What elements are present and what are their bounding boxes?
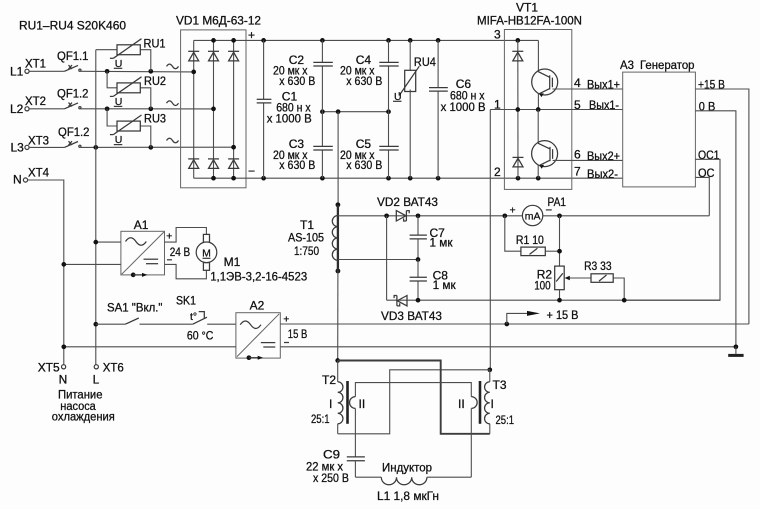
IGBT 1 [532, 40, 558, 109]
junction C6 bottom [436, 176, 441, 181]
capacitor C3 [273, 112, 333, 179]
node L1-RU2 [105, 69, 110, 74]
node L1-RU1 [148, 69, 153, 74]
svg-text:х 1000 В: х 1000 В [441, 100, 486, 114]
svg-text:L2: L2 [10, 102, 24, 116]
wire R2 top lead [559, 216, 561, 266]
wire gate1 to pin 4 [552, 88, 622, 90]
svg-text:25:1: 25:1 [496, 413, 515, 427]
node L2-RU3 [105, 106, 110, 111]
svg-text:II: II [359, 397, 366, 411]
wire middle rail [322, 111, 388, 113]
svg-text:4: 4 [574, 76, 581, 90]
+15V flag arrow [507, 308, 579, 324]
svg-text:х 250 В: х 250 В [313, 471, 349, 485]
node C [416, 257, 421, 262]
IGBT 2 [532, 110, 558, 179]
svg-text:+ 15 В: + 15 В [547, 308, 579, 322]
junction C2-C3 mid [320, 109, 325, 114]
varistor RU1 [96, 37, 166, 72]
junction RU4 bottom [408, 176, 413, 181]
junction C4 top [386, 38, 391, 43]
svg-text:RU2: RU2 [144, 74, 166, 88]
svg-text:+: + [510, 205, 516, 217]
module VT1 labels [477, 1, 582, 28]
junction L1 phase tap [191, 70, 196, 75]
motor M1 [196, 234, 307, 283]
resistor R3 [584, 259, 624, 300]
svg-text:М: М [202, 247, 211, 259]
junction RU4 top [408, 38, 413, 43]
diode bottom 2 [208, 159, 219, 169]
varistor RU4 [393, 40, 436, 178]
svg-text:VD2 ВАТ43: VD2 ВАТ43 [377, 195, 438, 209]
block A1 [121, 218, 165, 277]
wire left varistor rail [95, 50, 97, 365]
svg-text:M1: M1 [224, 255, 241, 269]
svg-text:AS-105: AS-105 [288, 231, 324, 245]
node D [416, 298, 421, 303]
thermal switch SK1 [176, 294, 236, 343]
svg-text:Вых2-: Вых2- [587, 167, 618, 181]
svg-text:+: + [166, 231, 172, 243]
junction C1 bottom [261, 176, 266, 181]
svg-text:VT1: VT1 [516, 1, 538, 15]
AC mark L3 [167, 138, 179, 143]
junction bridge bottom bus col3 [231, 176, 236, 181]
terminal XT4 [13, 165, 49, 186]
svg-text:I: I [491, 397, 494, 411]
bridge VD1 box [181, 30, 246, 188]
module VT1 box [504, 30, 571, 190]
svg-text:А1: А1 [134, 218, 149, 232]
svg-text:VD1 М6Д-63-12: VD1 М6Д-63-12 [176, 14, 261, 28]
capacitor C2 [273, 40, 333, 111]
svg-text:60 °С: 60 °С [187, 329, 214, 343]
diode bottom 3 [228, 159, 239, 169]
junction C5 bottom [386, 176, 391, 181]
diode top 1 [188, 51, 199, 61]
capacitor C1 [257, 40, 312, 178]
net OC1 from A3 [624, 148, 720, 300]
node R1-R2 [557, 249, 562, 254]
svg-text:Вых1-: Вых1- [589, 98, 619, 112]
svg-text:х 1000 В: х 1000 В [267, 112, 312, 126]
diode VD-bottom in VT1 [513, 157, 524, 167]
wire pin1 line down [489, 110, 491, 370]
wire load line from mid rail [337, 112, 339, 205]
junction VT1 diode column bottom [516, 176, 521, 181]
diode top 3 [228, 51, 239, 61]
svg-text:х 630 В: х 630 В [346, 74, 382, 88]
svg-text:RU4: RU4 [414, 55, 436, 69]
svg-text:2: 2 [494, 165, 501, 179]
svg-text:L1 1,8 мкГн: L1 1,8 мкГн [377, 489, 439, 503]
svg-text:II: II [458, 397, 465, 411]
breaker QF1.2 [57, 87, 89, 109]
wire T1 sec top [338, 215, 523, 217]
svg-text:ХТ1: ХТ1 [25, 56, 46, 70]
svg-text:N: N [13, 172, 22, 186]
capacitor C8 [410, 260, 457, 301]
svg-text:SK1: SK1 [176, 294, 196, 308]
label 24V [166, 231, 190, 260]
svg-text:QF1.2: QF1.2 [58, 125, 90, 139]
junction C3 bottom [320, 176, 325, 181]
node ground right [734, 344, 739, 349]
svg-text:I: I [329, 397, 332, 411]
pin labels 4,5,6,7 [574, 76, 581, 178]
node L3-RU3 [148, 145, 153, 150]
wire node A down to VD3 [386, 216, 388, 300]
wire L1 to bridge [81, 70, 194, 73]
svg-text:MIFA-HB12FA-100N: MIFA-HB12FA-100N [477, 14, 582, 28]
wire bottom DC rail [246, 177, 623, 179]
svg-text:−: − [248, 164, 255, 178]
svg-text:ХТ3: ХТ3 [28, 133, 49, 147]
wire L1 to breaker [29, 70, 64, 72]
svg-text:L: L [93, 373, 100, 387]
wire L3 to breaker [29, 146, 64, 148]
svg-text:Вых2+: Вых2+ [587, 149, 620, 163]
diode VD2 BAT43 [377, 195, 438, 221]
label 15V [283, 314, 307, 343]
svg-text:100: 100 [534, 279, 551, 293]
wire pin1 node to T2 bottom [338, 370, 490, 434]
wire A1 input top [96, 241, 121, 243]
wire A1 minus to motor [165, 264, 207, 278]
wiper arrow R2 [565, 276, 591, 281]
svg-text:mA: mA [525, 211, 541, 223]
bridge column 3 [233, 40, 235, 178]
caption pump power [52, 388, 115, 424]
ground symbol [728, 347, 743, 356]
node B [416, 213, 421, 218]
terminal XT1 [10, 56, 46, 78]
junction bridge bottom bus col2 [211, 176, 216, 181]
wire thick link to T3 bottom [338, 361, 490, 434]
svg-text:Т2: Т2 [322, 373, 336, 387]
svg-text:R1 10: R1 10 [516, 233, 544, 247]
junction L3 phase tap [231, 145, 236, 150]
svg-text:24 В: 24 В [170, 245, 191, 259]
svg-text:5: 5 [574, 98, 581, 112]
node load tap mid rail [336, 109, 341, 114]
svg-text:QF1.1: QF1.1 [57, 49, 89, 63]
svg-text:Вых1+: Вых1+ [587, 77, 620, 91]
svg-text:0 В: 0 В [699, 100, 716, 114]
svg-text:х 630 В: х 630 В [279, 158, 315, 172]
generator A3 box [623, 72, 696, 187]
node PA1 minus [557, 213, 562, 218]
resistor R2 [534, 266, 564, 300]
node R2 bottom [557, 298, 562, 303]
transformer T1 [288, 202, 340, 273]
junction IGBT2 emitter [536, 176, 541, 181]
node T3 top [487, 367, 492, 372]
node +15 branch [504, 322, 509, 327]
bridge top bus [194, 39, 246, 41]
terminal XT3 [11, 133, 50, 154]
svg-text:15 В: 15 В [288, 327, 308, 341]
svg-text:L3: L3 [11, 140, 25, 154]
svg-text:А2: А2 [250, 298, 265, 312]
junction IGBT1 emitter pin1 rail [536, 107, 541, 112]
node A1 in top [93, 240, 98, 245]
node R3 bottom [622, 298, 627, 303]
wire top DC rail [246, 39, 538, 41]
svg-text:N: N [59, 373, 68, 387]
svg-text:RU1: RU1 [144, 37, 166, 51]
node L3-RU1 rail [93, 145, 98, 150]
diode VD3 BAT43 [381, 296, 442, 323]
diode bottom 1 [188, 159, 199, 169]
breaker QF1.2 (third) [58, 125, 90, 147]
node PA1 plus [502, 213, 507, 218]
wire VT1 diode column [517, 40, 519, 178]
net +15V from A3 [695, 77, 749, 324]
junction bridge top bus col3 [231, 38, 236, 43]
svg-text:RU1–RU4 S20K460: RU1–RU4 S20K460 [19, 19, 126, 33]
svg-text:1:750: 1:750 [294, 244, 319, 258]
wire load line down [337, 271, 339, 361]
svg-text:25:1: 25:1 [311, 412, 330, 426]
milliammeter PA1 [510, 195, 567, 226]
diode VD-top in VT1 [512, 51, 523, 61]
varistor RU3 [107, 109, 166, 148]
block A2 [236, 298, 280, 360]
junction C1 top [261, 38, 266, 43]
svg-text:ХТ2: ХТ2 [25, 94, 46, 108]
terminal XT6 [93, 360, 124, 386]
node L2-RU2 [148, 106, 153, 111]
junction bridge top bus col2 [211, 38, 216, 43]
svg-text:L1: L1 [10, 64, 24, 78]
svg-text:А3: А3 [620, 58, 634, 72]
junction L2 phase tap [211, 107, 216, 112]
node A [384, 213, 389, 218]
svg-text:ХТ5: ХТ5 [38, 360, 60, 374]
terminal XT2 [10, 94, 46, 116]
svg-text:1 мк: 1 мк [430, 236, 454, 250]
junction VT1 diode column top [515, 38, 520, 43]
capacitor C6 [429, 40, 486, 178]
breaker QF1.1 [57, 49, 89, 71]
junction C4-C5 mid [386, 109, 391, 114]
svg-text:Индуктор: Индуктор [382, 461, 432, 475]
svg-text:охлаждения: охлаждения [52, 410, 115, 424]
svg-text:QF1.2: QF1.2 [57, 87, 89, 101]
svg-text:ОС: ОС [698, 166, 715, 180]
capacitor C9 [306, 448, 365, 486]
net OC from A3 [695, 166, 714, 216]
svg-text:3: 3 [494, 28, 501, 42]
wire L2 to bridge [81, 108, 214, 110]
svg-text:х 630 В: х 630 В [279, 74, 315, 88]
junction diode column pin1 rail [515, 107, 520, 112]
wire gate2 to pin 6 [553, 159, 623, 161]
wire T1 sec bottom [338, 259, 418, 261]
svg-text:Генератор: Генератор [640, 58, 695, 72]
varistor RU2 [107, 71, 166, 109]
svg-text:RU3: RU3 [144, 112, 166, 126]
wire L2 to breaker [29, 108, 64, 110]
wire ground rail right [280, 346, 736, 348]
wire A1 input bottom [64, 263, 121, 265]
capacitor C7 [410, 216, 454, 260]
wire XT4 down-column [28, 180, 64, 365]
diode top 2 [208, 51, 219, 61]
svg-text:1 мк: 1 мк [433, 278, 457, 292]
wire pin1/pin5 rail [490, 109, 622, 111]
resistor R1 [505, 216, 560, 256]
svg-text:t°: t° [190, 311, 197, 323]
capacitor C4 [340, 40, 399, 111]
bridge bottom bus [194, 177, 246, 179]
svg-text:7: 7 [574, 165, 581, 179]
svg-text:1,1ЭВ-3,2-16-4523: 1,1ЭВ-3,2-16-4523 [210, 269, 307, 283]
switch SA1 [93, 301, 192, 327]
node T2 top [335, 358, 340, 363]
junction C2 top [320, 38, 325, 43]
node A1 in bottom [61, 262, 66, 267]
svg-text:VD3 ВАТ43: VD3 ВАТ43 [381, 309, 442, 323]
capacitor C5 [340, 112, 399, 179]
svg-text:РА1: РА1 [548, 195, 567, 209]
wire node D rail [387, 299, 720, 301]
bridge column 1 [193, 40, 195, 178]
bridge column 2 [213, 40, 215, 178]
svg-text:Т3: Т3 [493, 378, 507, 392]
wire ground rail left [64, 346, 236, 348]
svg-text:R3 33: R3 33 [584, 259, 612, 273]
transformer T2 [311, 361, 471, 457]
wire L3 to bridge [81, 146, 234, 148]
net 0V from A3 [695, 100, 736, 347]
wire A1 plus to motor [165, 228, 207, 243]
net labels Вых [587, 77, 620, 181]
svg-text:SA1 "Вкл.": SA1 "Вкл." [107, 301, 163, 315]
wire +15V rail [280, 323, 749, 325]
terminal XT5 [38, 360, 68, 386]
junction C6 top [436, 38, 441, 43]
AC mark L1 [167, 64, 179, 69]
svg-text:6: 6 [574, 148, 581, 162]
svg-text:ХТ4: ХТ4 [28, 165, 49, 179]
inductor L1 [355, 461, 471, 504]
transformer T3 [458, 370, 514, 477]
svg-text:х 630 В: х 630 В [346, 158, 382, 172]
node ground left [61, 344, 66, 349]
wire PA1 to OC corner [543, 215, 710, 217]
AC mark L2 [167, 101, 179, 106]
svg-text:ХТ6: ХТ6 [103, 360, 124, 374]
